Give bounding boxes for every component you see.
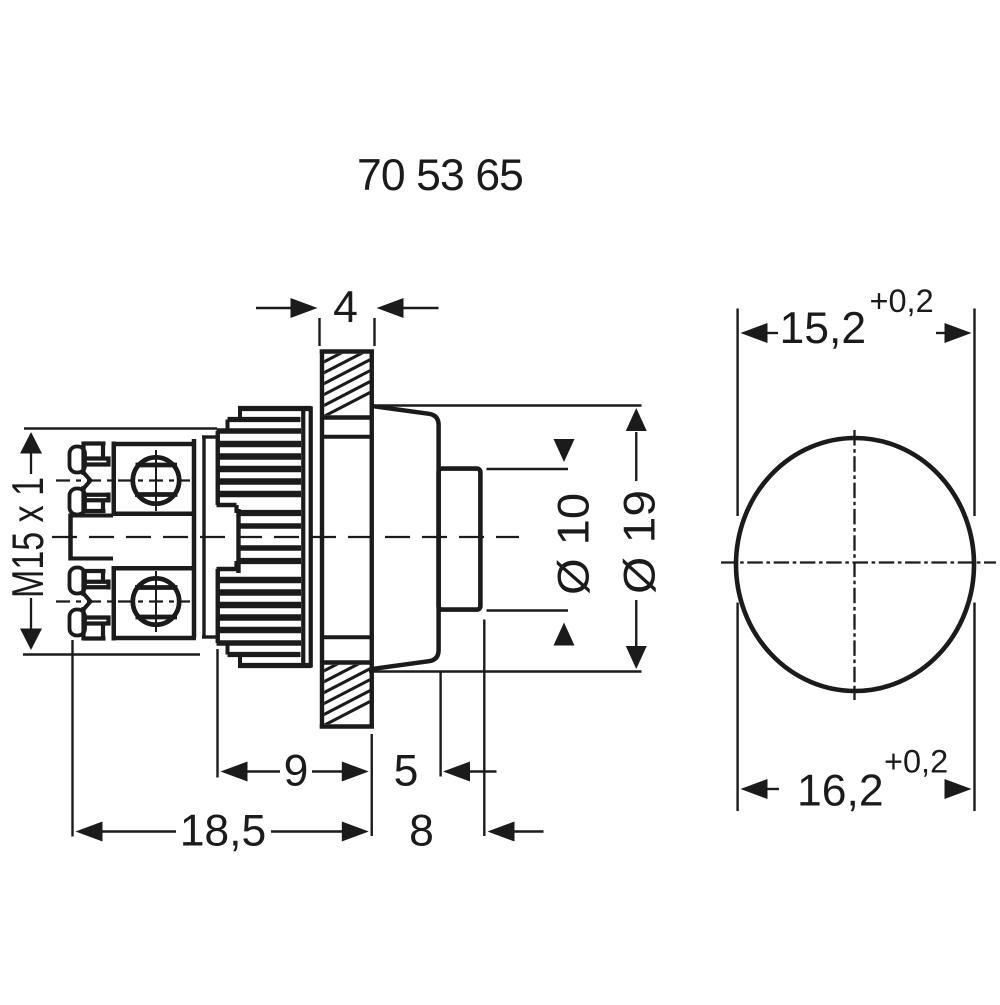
right extension line lower (973, 603, 975, 812)
housing body top edge (69, 514, 114, 518)
thread land B edge (228, 417, 301, 422)
dim D10: top extension line (487, 468, 569, 470)
mounting hole circle (736, 438, 974, 691)
clamp V notch (84, 473, 91, 489)
dim D10: arrow down (554, 439, 575, 462)
dim 9: arrows and line (221, 762, 248, 782)
button front extension line (483, 620, 485, 837)
thread land A top edge (238, 406, 312, 411)
screw slot upper edge (136, 463, 178, 468)
left extension line lower (736, 603, 738, 812)
neck tube top line (through panel clearance) (322, 435, 372, 439)
circle vertical centerline (853, 430, 855, 700)
inner sleeve left edge (236, 509, 240, 573)
dim D19: arrow up (626, 408, 647, 431)
M15x1 top extension line (24, 427, 217, 430)
clamp lower tab (101, 502, 105, 511)
right extension line upper (973, 309, 975, 517)
clamp lower leaf bars (81, 486, 85, 513)
M15x1 arrow down (20, 629, 42, 651)
svg-text:5: 5 (394, 747, 419, 796)
svg-text:+0,2: +0,2 (870, 283, 934, 319)
dim D10: arrow up (554, 623, 575, 646)
inner sleeve line (240, 523, 301, 529)
dim 4: right arrow (377, 298, 404, 318)
clamp upper leaf bars (85, 456, 111, 460)
bottom terminal assembly (mirror) (56, 566, 196, 641)
panel right face (370, 350, 374, 729)
screw vertical centerline (155, 450, 157, 511)
M15x1 bottom extension line (23, 653, 200, 656)
dim 18,5: left extension line (71, 640, 73, 837)
svg-text:4: 4 (333, 283, 358, 332)
clamp lower spring washer (70, 489, 86, 515)
screw slot lower edge (135, 492, 178, 497)
svg-text:9: 9 (284, 747, 309, 796)
clamp upper tab (83, 441, 106, 445)
thread section top edge (217, 428, 302, 433)
push button (439, 469, 481, 610)
terminal axis centerline (56, 479, 190, 481)
dim 16,2 +0,2 (741, 779, 768, 799)
panel right extension line (lower) (371, 734, 373, 836)
dim 4: left arrow (256, 307, 292, 309)
front bezel outline (374, 406, 439, 669)
thread step B (226, 420, 230, 432)
neck tube bottom line (322, 635, 372, 639)
M15x1 dimension line lower stub (30, 598, 32, 648)
svg-text:8: 8 (409, 807, 434, 856)
dim 9: left extension line (216, 649, 218, 778)
main horizontal centerline of side view (52, 536, 519, 538)
housing body bottom edge (69, 557, 114, 561)
circle horizontal centerline (721, 561, 996, 563)
svg-text:18,5: 18,5 (180, 807, 267, 856)
thread section left edge (216, 431, 220, 505)
svg-text:16,2: 16,2 (797, 767, 884, 816)
clamp upper spring washer (70, 447, 86, 473)
svg-text:M15 x 1: M15 x 1 (4, 477, 53, 598)
housing body left edge (68, 514, 73, 561)
bottom half of threaded bushing (mirror) (217, 548, 312, 666)
thread step A (238, 409, 242, 420)
M15x1 arrow up (20, 432, 42, 454)
terminal blocks right edge (192, 439, 197, 638)
dim 4: left extension line (318, 318, 320, 346)
dim D19: arrow down (626, 646, 647, 669)
dim D19: top extension line (377, 404, 642, 406)
terminal screw head circle (133, 457, 179, 503)
panel hole top edge (320, 415, 374, 419)
step line top (202, 435, 218, 438)
dim D10: bottom extension line (487, 609, 569, 611)
collar washer left line (301, 407, 305, 668)
bezel front extension line (439, 673, 441, 777)
svg-text:15,2: 15,2 (780, 304, 867, 353)
panel left face (320, 350, 324, 729)
terminal block outline (112, 442, 117, 517)
inner sleeve step (234, 505, 238, 513)
svg-text:Ø 10: Ø 10 (550, 493, 599, 595)
panel top edge (320, 349, 374, 353)
thread section bottom-left edge (217, 503, 237, 507)
dim 15,2 +0,2 (741, 323, 768, 343)
M15x1 dimension line upper stub (30, 434, 32, 474)
thread crest lines (219, 441, 301, 447)
step line bottom (202, 635, 218, 638)
body second vertical line (202, 436, 205, 638)
left extension line upper (736, 309, 738, 517)
panel bottom edge (320, 724, 374, 728)
svg-text:Ø 19: Ø 19 (616, 490, 665, 594)
svg-text:+0,2: +0,2 (884, 744, 948, 780)
panel hole bottom edge (320, 660, 374, 664)
dim 18,5: arrows, line, label (76, 822, 103, 842)
dim D19: dimension line stubs (635, 432, 637, 481)
svg-text:70 53 65: 70 53 65 (357, 151, 523, 200)
collar washer right line (309, 407, 313, 668)
inner sleeve top edge (237, 510, 302, 516)
dim D19: bottom extension line (369, 670, 642, 672)
dim 4: right extension line (373, 318, 375, 346)
